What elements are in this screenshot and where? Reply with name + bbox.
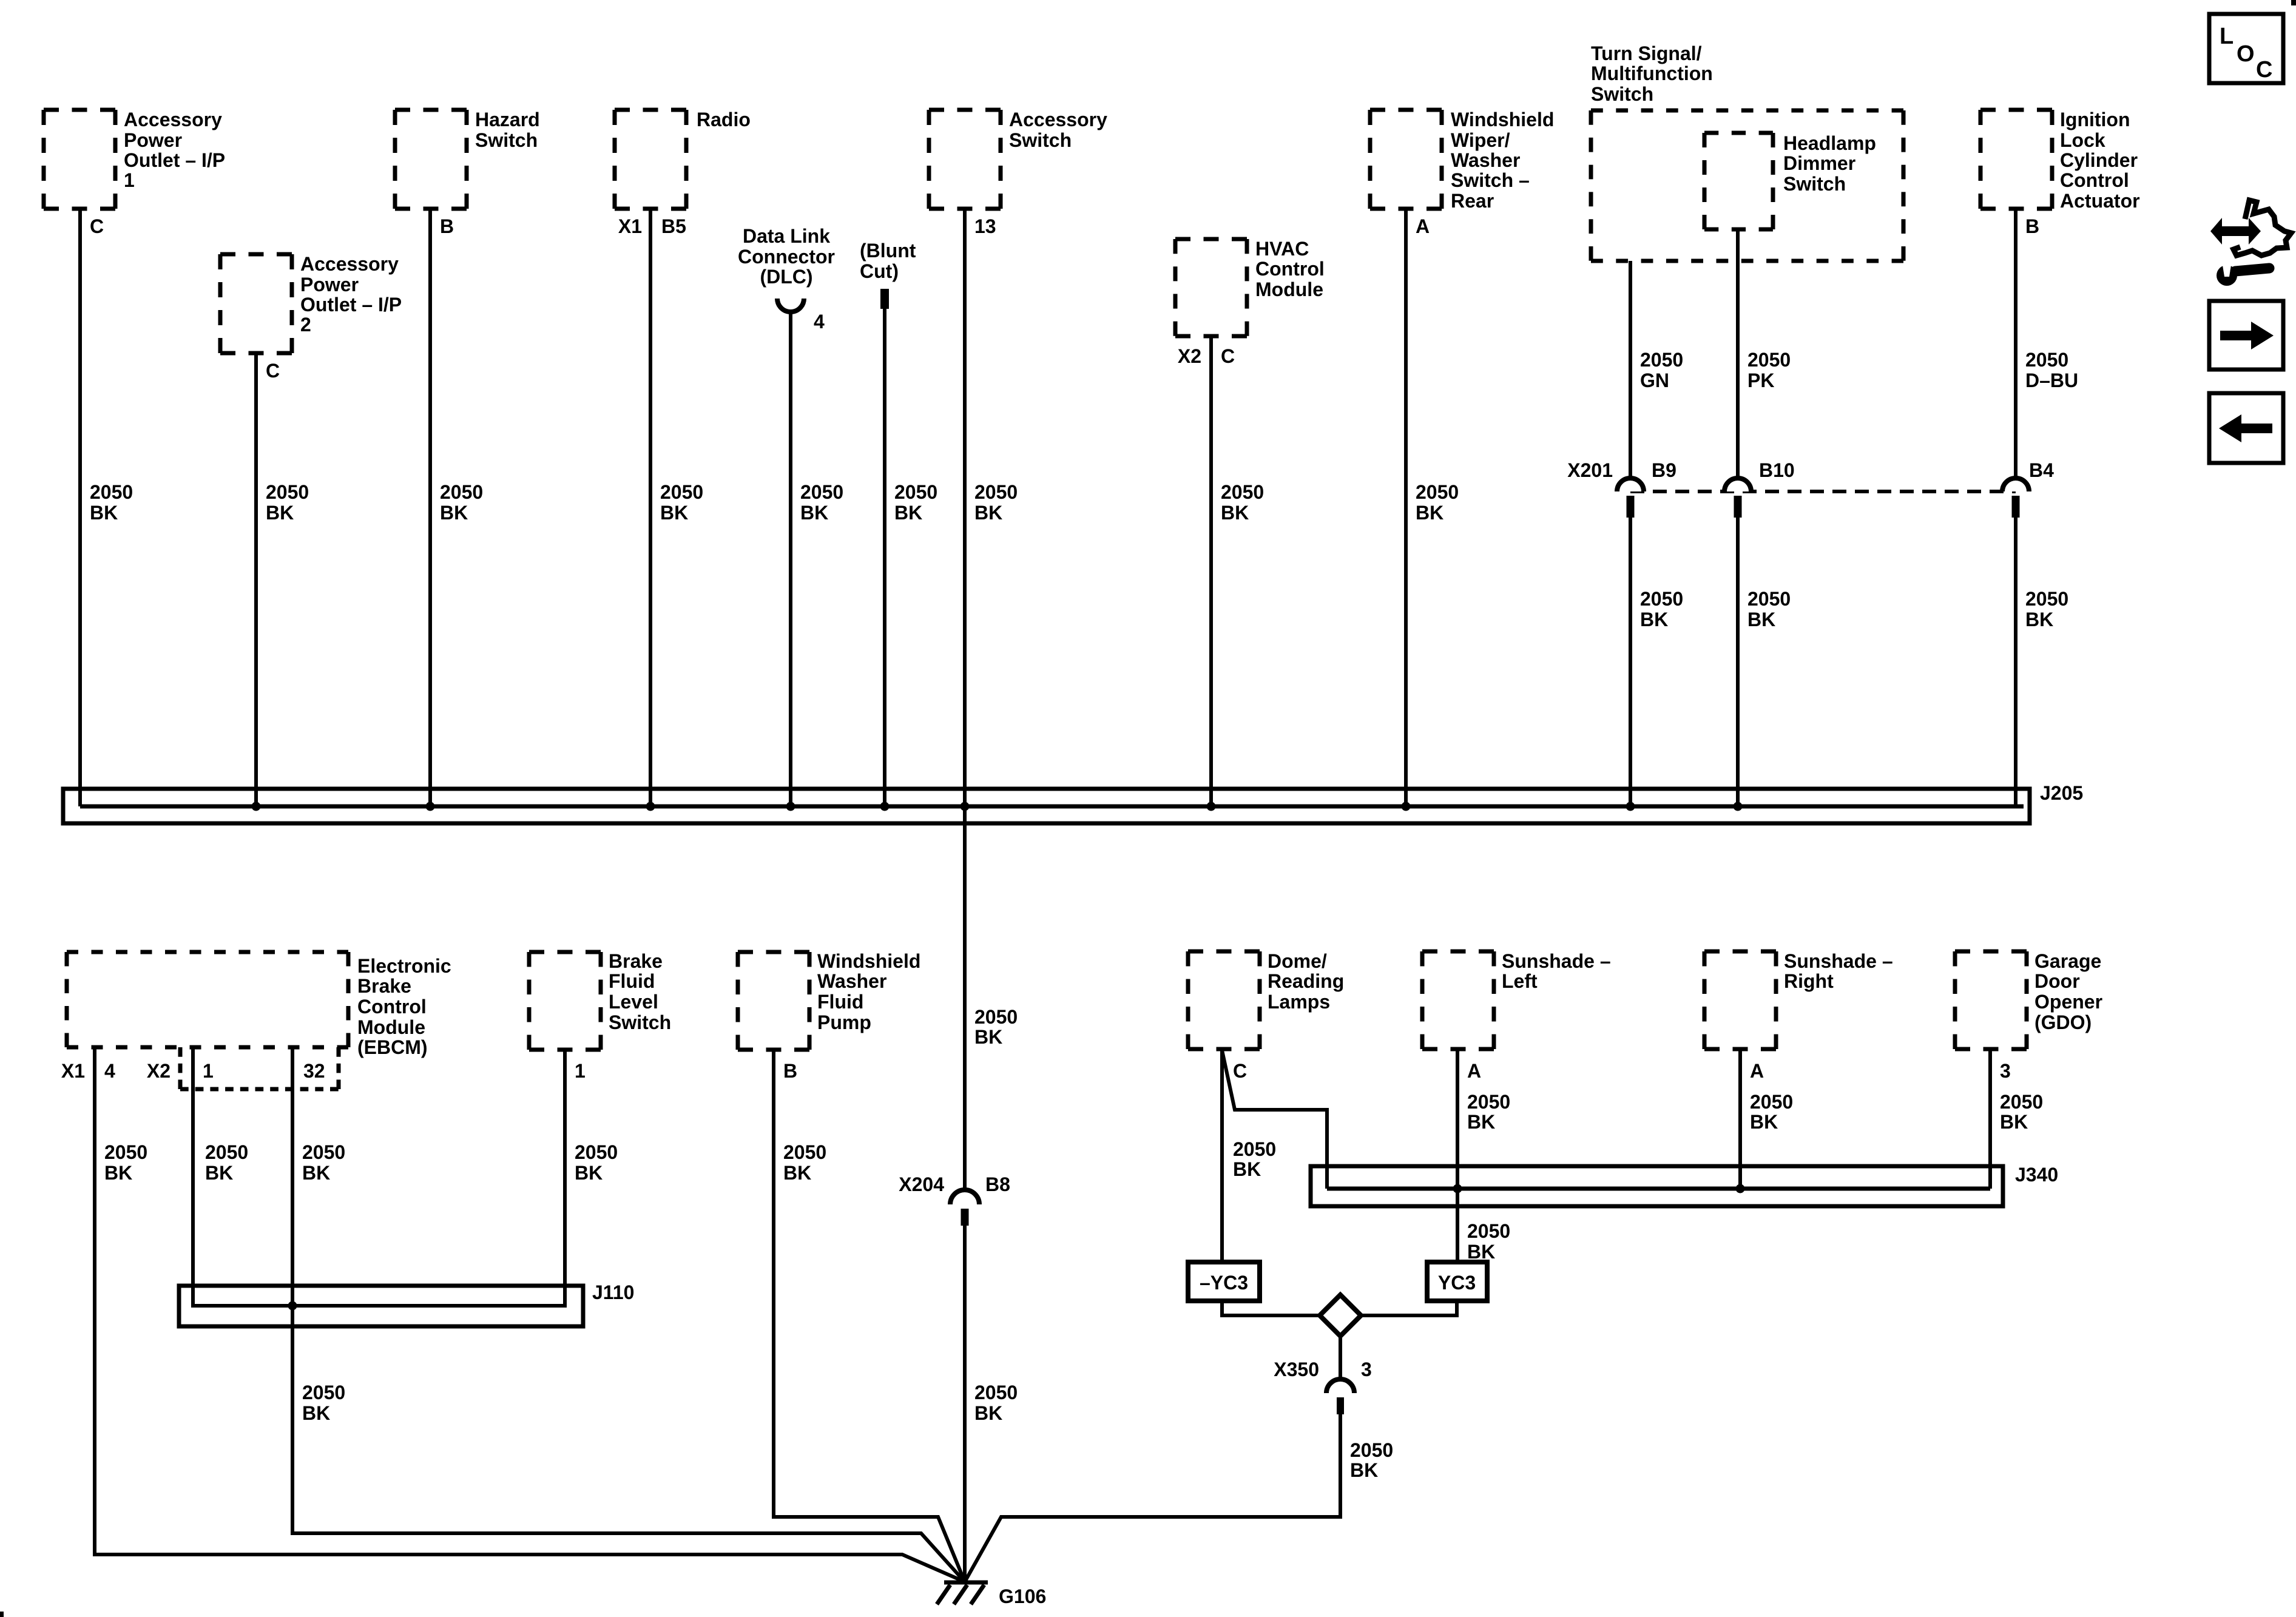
svg-text:Switch: Switch [609, 1011, 671, 1033]
svg-text:Garage: Garage [2034, 950, 2101, 972]
svg-text:J205: J205 [2040, 782, 2083, 804]
svg-text:Switch: Switch [475, 129, 538, 151]
svg-text:2050: 2050 [1350, 1439, 1393, 1461]
svg-text:BK: BK [894, 502, 922, 524]
svg-text:Accessory: Accessory [1009, 109, 1107, 130]
wire GDO pin 3 to J340 [1988, 1049, 1992, 1189]
svg-text:BK: BK [575, 1162, 603, 1184]
inline splice YC3 box [1427, 1262, 1487, 1301]
svg-text:2050: 2050 [974, 1006, 1018, 1028]
svg-text:Headlamp: Headlamp [1783, 132, 1876, 154]
svg-text:Dome/: Dome/ [1268, 950, 1327, 972]
svg-text:Connector: Connector [738, 246, 835, 268]
connector DLC cavity 4 (cup symbol) [777, 299, 804, 312]
wire Accessory Switch pin 13 to J205 [963, 209, 967, 806]
component Windshield Wiper/Washer Switch - Rear (dashed box) [1370, 110, 1442, 209]
svg-text:Opener: Opener [2034, 991, 2102, 1013]
svg-text:2050: 2050 [1750, 1091, 1793, 1113]
svg-text:BK: BK [1233, 1158, 1261, 1180]
wire Dome pin C to -YC3 [1220, 1049, 1224, 1262]
LOC legend box [2209, 14, 2283, 83]
svg-text:(Blunt: (Blunt [860, 240, 916, 262]
wire WW Rear pin A to J205 [1404, 209, 1408, 806]
svg-text:4: 4 [104, 1060, 115, 1082]
svg-text:J340: J340 [2015, 1164, 2058, 1186]
junction dot on J340 (Sunshade Right) [1736, 1184, 1745, 1193]
junction dot on J110 [288, 1301, 297, 1311]
junction dot on J205 at x=1303 [786, 802, 795, 811]
svg-text:2050: 2050 [974, 1382, 1018, 1403]
svg-text:(EBCM): (EBCM) [357, 1036, 428, 1058]
svg-text:Multifunction: Multifunction [1591, 62, 1713, 84]
junction dot on J205 at x=1590 [961, 802, 970, 811]
svg-text:Turn Signal/: Turn Signal/ [1591, 42, 1702, 64]
svg-text:B10: B10 [1759, 459, 1795, 481]
component Electronic Brake Control Module EBCM (dashed box) [67, 952, 348, 1047]
junction dot on J340 (Sunshade Left) [1453, 1184, 1462, 1193]
svg-text:2050: 2050 [90, 481, 133, 503]
svg-text:–YC3: –YC3 [1200, 1272, 1248, 1294]
svg-text:BK: BK [440, 502, 468, 524]
wire DLC pin 4 to J205 [789, 311, 792, 806]
svg-text:B: B [440, 215, 454, 237]
terminal B4 [2012, 496, 2020, 518]
svg-text:BK: BK [2025, 609, 2053, 630]
wire B9 to J205 [1629, 518, 1632, 806]
wire Ignition pin B to X201 B4 [2014, 209, 2017, 490]
svg-text:3: 3 [2000, 1060, 2011, 1082]
svg-text:Cylinder: Cylinder [2060, 149, 2138, 171]
wire Sunshade Left through J340 to YC3 [1456, 1049, 1459, 1262]
svg-text:C: C [266, 360, 280, 382]
component Hazard Switch (dashed box) [395, 110, 467, 209]
component Sunshade - Left (dashed box) [1422, 951, 1494, 1049]
junction block J205 (splice pack) [63, 789, 2030, 823]
wire Dome branch to J340 [1222, 1050, 1327, 1189]
junction dot on J205 at x=2317 [1402, 802, 1411, 811]
junction block J340 (splice pack) [1311, 1166, 2003, 1206]
ground G106 symbol [937, 1582, 988, 1604]
wire Washer Pump to G106 [772, 1517, 965, 1582]
svg-text:Windshield: Windshield [1451, 109, 1554, 130]
svg-text:Accessory: Accessory [300, 253, 399, 275]
svg-text:Level: Level [609, 991, 658, 1013]
svg-text:1: 1 [203, 1060, 214, 1082]
svg-text:A: A [1750, 1060, 1764, 1082]
svg-text:Module: Module [1255, 279, 1323, 300]
svg-text:2050: 2050 [2025, 588, 2068, 610]
svg-text:Switch: Switch [1783, 173, 1846, 195]
junction dot on J205 at x=1996 [1207, 802, 1216, 811]
svg-text:Outlet – I/P: Outlet – I/P [300, 294, 402, 316]
svg-text:Sunshade –: Sunshade – [1502, 950, 1611, 972]
junction dot on J205 at x=422 [252, 802, 261, 811]
wire X350 down [1339, 1414, 1342, 1519]
svg-text:BK: BK [1750, 1111, 1778, 1133]
component Accessory Power Outlet I/P 2 (dashed box) [220, 254, 292, 353]
svg-text:Electronic: Electronic [357, 955, 451, 977]
svg-text:2050: 2050 [783, 1141, 826, 1163]
svg-text:2050: 2050 [302, 1141, 345, 1163]
terminal B10 [1734, 496, 1742, 518]
wire Turn Signal switch to X201 B9 [1629, 261, 1632, 490]
connector face / tools icon [2210, 200, 2291, 286]
svg-text:Brake: Brake [609, 950, 663, 972]
wire Washer Pump down [772, 1050, 775, 1519]
wire Sunshade Right to J340 [1738, 1049, 1742, 1189]
svg-text:2050: 2050 [660, 481, 703, 503]
svg-text:L: L [2220, 24, 2234, 49]
svg-text:Washer: Washer [1451, 149, 1520, 171]
svg-text:A: A [1416, 215, 1430, 237]
svg-text:Dimmer: Dimmer [1783, 152, 1855, 174]
svg-text:2050: 2050 [1416, 481, 1459, 503]
wire blunt cut to J205 [883, 309, 886, 806]
svg-text:Lamps: Lamps [1268, 991, 1330, 1013]
svg-text:BK: BK [783, 1162, 811, 1184]
svg-text:(DLC): (DLC) [760, 266, 812, 288]
svg-text:B5: B5 [661, 215, 686, 237]
component Turn Signal/Multifunction Switch (dashed box) [1591, 110, 1903, 261]
splice diamond symbol [1320, 1295, 1361, 1336]
wire diamond to X350 [1339, 1336, 1342, 1380]
svg-text:BK: BK [974, 502, 1002, 524]
svg-text:BK: BK [266, 502, 294, 524]
wire B10 to J205 [1736, 518, 1740, 806]
svg-text:2050: 2050 [1747, 588, 1791, 610]
svg-text:C: C [2256, 57, 2272, 83]
svg-text:BK: BK [1416, 502, 1443, 524]
component Ignition Lock Cylinder Control Actuator (dashed box) [1980, 110, 2052, 209]
wire EBCM X2-32 down [291, 1047, 294, 1535]
svg-text:X201: X201 [1567, 459, 1613, 481]
wire EBCM X2-1 through J110 to Brake Fluid Level Switch [193, 1047, 565, 1306]
svg-text:32: 32 [303, 1060, 325, 1082]
svg-text:BK: BK [974, 1402, 1002, 1424]
component HVAC Control Module (dashed box) [1175, 239, 1247, 336]
svg-text:GN: GN [1640, 370, 1669, 391]
junction block J110 (splice pack) [179, 1286, 583, 1326]
svg-text:2050: 2050 [302, 1382, 345, 1403]
svg-text:2050: 2050 [266, 481, 309, 503]
svg-text:Wiper/: Wiper/ [1451, 129, 1510, 151]
svg-text:2050: 2050 [974, 481, 1018, 503]
svg-text:2050: 2050 [205, 1141, 248, 1163]
svg-text:BK: BK [1747, 609, 1775, 630]
svg-text:G106: G106 [999, 1585, 1046, 1607]
svg-text:Control: Control [357, 996, 427, 1018]
component Radio (dashed box) [615, 110, 686, 209]
svg-text:2050: 2050 [575, 1141, 618, 1163]
svg-text:B: B [783, 1060, 797, 1082]
svg-text:O: O [2237, 41, 2255, 67]
svg-text:Control: Control [2060, 169, 2129, 191]
svg-text:X1: X1 [61, 1060, 85, 1082]
wire Headlamp Dimmer switch to X201 B10 [1736, 229, 1740, 490]
svg-text:BK: BK [1640, 609, 1668, 630]
svg-text:Rear: Rear [1451, 190, 1494, 212]
svg-text:Left: Left [1502, 970, 1538, 992]
svg-text:BK: BK [1221, 502, 1249, 524]
terminal B8 [961, 1209, 969, 1226]
component Windshield Washer Fluid Pump (dashed box) [738, 952, 809, 1050]
wire YC3 to diamond [1360, 1301, 1457, 1315]
svg-text:Module: Module [357, 1016, 425, 1038]
svg-text:2050: 2050 [800, 481, 843, 503]
svg-text:C: C [90, 215, 104, 237]
connector X201 cavity B4 [2002, 478, 2029, 491]
wire EBCM X1-4 down [93, 1047, 96, 1555]
svg-text:BK: BK [302, 1162, 330, 1184]
J340 internal bus wire [1327, 1187, 1990, 1191]
svg-text:X350: X350 [1274, 1359, 1319, 1380]
component Headlamp Dimmer Switch (dashed box) [1704, 133, 1773, 229]
junction dot on J205 at x=1458 [880, 802, 890, 811]
svg-text:BK: BK [2000, 1111, 2028, 1133]
junction dot on J205 at x=2864 [1734, 802, 1743, 811]
connector X350 cavity 3 [1326, 1379, 1354, 1393]
svg-text:B: B [2025, 215, 2039, 237]
svg-text:2050: 2050 [104, 1141, 147, 1163]
svg-text:Washer: Washer [817, 970, 886, 992]
svg-text:B4: B4 [2029, 459, 2054, 481]
component Brake Fluid Level Switch (dashed box) [529, 952, 601, 1050]
connector X201 cavity B9 [1617, 478, 1644, 491]
svg-text:2: 2 [300, 314, 311, 336]
svg-text:BK: BK [205, 1162, 233, 1184]
svg-text:2050: 2050 [1467, 1220, 1510, 1242]
wire Hazard pin B to J205 [428, 209, 432, 806]
terminal X350-3 [1337, 1397, 1344, 1414]
svg-text:BK: BK [974, 1026, 1002, 1048]
svg-text:C: C [1233, 1060, 1247, 1082]
component Accessory Power Outlet I/P 1 (dashed box) [44, 110, 115, 209]
svg-text:Ignition: Ignition [2060, 109, 2130, 130]
svg-text:Lock: Lock [2060, 129, 2105, 151]
svg-text:Brake: Brake [357, 975, 411, 997]
svg-text:Accessory: Accessory [124, 109, 222, 130]
svg-text:13: 13 [974, 215, 996, 237]
svg-text:Fluid: Fluid [609, 970, 655, 992]
svg-text:Reading: Reading [1268, 970, 1344, 992]
svg-text:2050: 2050 [1233, 1138, 1276, 1160]
wire EBCM X1-4 to G106 [93, 1555, 965, 1582]
svg-text:4: 4 [814, 311, 825, 333]
component Accessory Switch (dashed box) [929, 110, 1001, 209]
svg-text:Hazard: Hazard [475, 109, 540, 130]
wire HVAC pin C to J205 [1209, 336, 1213, 806]
svg-text:X2: X2 [1178, 345, 1201, 367]
svg-text:Outlet – I/P: Outlet – I/P [124, 149, 225, 171]
component Garage Door Opener GDO (dashed box) [1955, 951, 2027, 1049]
svg-text:Cut): Cut) [860, 260, 899, 282]
svg-text:BK: BK [1467, 1111, 1495, 1133]
svg-text:C: C [1221, 345, 1235, 367]
connector X2 of EBCM (small dashed box) [180, 1047, 339, 1089]
blunt cut terminal [880, 289, 889, 309]
svg-text:X2: X2 [147, 1060, 171, 1082]
connector X201 harness dashed line [1630, 490, 2016, 493]
inline splice -YC3 box [1188, 1262, 1260, 1301]
svg-text:Actuator: Actuator [2060, 190, 2140, 212]
svg-text:BK: BK [302, 1402, 330, 1424]
svg-text:X204: X204 [899, 1173, 944, 1195]
svg-text:Sunshade –: Sunshade – [1784, 950, 1893, 972]
wire J205 to X204 [963, 806, 967, 1191]
wire -YC3 to diamond [1222, 1301, 1321, 1315]
svg-text:Power: Power [300, 274, 359, 295]
svg-text:BK: BK [800, 502, 828, 524]
svg-text:Switch: Switch [1009, 129, 1072, 151]
junction dot on J205 at x=2687 [1626, 802, 1635, 811]
svg-text:BK: BK [1350, 1459, 1378, 1481]
connector X204 cavity B8 [950, 1190, 979, 1204]
wire B4 to J205 [2014, 518, 2017, 806]
svg-text:2050: 2050 [1640, 349, 1683, 371]
wire APO1 pin C to J205 [78, 209, 82, 806]
svg-text:D–BU: D–BU [2025, 370, 2078, 391]
J205 internal bus wire [80, 805, 2024, 809]
svg-text:Windshield: Windshield [817, 950, 920, 972]
svg-text:2050: 2050 [440, 481, 483, 503]
svg-text:Right: Right [1784, 970, 1834, 992]
scan artifact top-right corner [2291, 0, 2296, 5]
svg-text:2050: 2050 [2025, 349, 2068, 371]
svg-text:Power: Power [124, 129, 182, 151]
terminal B9 [1627, 496, 1635, 518]
svg-text:1: 1 [124, 169, 135, 191]
junction dot on J205 at x=709 [426, 802, 435, 811]
svg-text:Pump: Pump [817, 1011, 871, 1033]
svg-text:Control: Control [1255, 258, 1325, 280]
svg-text:(GDO): (GDO) [2034, 1011, 2092, 1033]
component Sunshade - Right (dashed box) [1704, 951, 1776, 1049]
svg-text:BK: BK [660, 502, 688, 524]
svg-text:2050: 2050 [1747, 349, 1791, 371]
wire APO2 pin C to J205 [254, 353, 258, 806]
svg-text:J110: J110 [592, 1281, 634, 1303]
wire EBCM X2-32 to G106 [291, 1533, 965, 1582]
svg-text:PK: PK [1747, 370, 1774, 391]
wire X350 to G106 [965, 1517, 1342, 1582]
svg-text:2050: 2050 [894, 481, 937, 503]
svg-text:X1: X1 [618, 215, 642, 237]
svg-text:BK: BK [1467, 1241, 1495, 1263]
svg-text:3: 3 [1361, 1359, 1372, 1380]
svg-text:BK: BK [104, 1162, 132, 1184]
component Dome/Reading Lamps (dashed box) [1188, 951, 1260, 1049]
wire X204 to G106 [963, 1226, 967, 1582]
svg-text:2050: 2050 [1221, 481, 1264, 503]
svg-text:2050: 2050 [1640, 588, 1683, 610]
svg-text:1: 1 [575, 1060, 586, 1082]
arrow right legend box [2209, 301, 2283, 370]
svg-text:Data Link: Data Link [743, 225, 830, 247]
svg-text:A: A [1467, 1060, 1481, 1082]
svg-text:BK: BK [90, 502, 118, 524]
svg-text:YC3: YC3 [1438, 1272, 1476, 1294]
arrow left legend box [2209, 393, 2283, 463]
svg-text:HVAC: HVAC [1255, 238, 1309, 260]
svg-text:B9: B9 [1652, 459, 1676, 481]
svg-text:2050: 2050 [1467, 1091, 1510, 1113]
svg-text:Radio: Radio [697, 109, 751, 130]
svg-text:Switch –: Switch – [1451, 169, 1530, 191]
svg-text:Fluid: Fluid [817, 991, 863, 1013]
scan artifact bottom-left corner [0, 1612, 4, 1617]
svg-text:Switch: Switch [1591, 83, 1653, 105]
wire Radio pin B5 to J205 [649, 209, 652, 806]
connector X201 cavity B10 [1724, 478, 1751, 491]
svg-text:B8: B8 [985, 1173, 1010, 1195]
svg-text:2050: 2050 [2000, 1091, 2043, 1113]
junction dot on J205 at x=1072 [646, 802, 655, 811]
svg-text:Door: Door [2034, 970, 2080, 992]
